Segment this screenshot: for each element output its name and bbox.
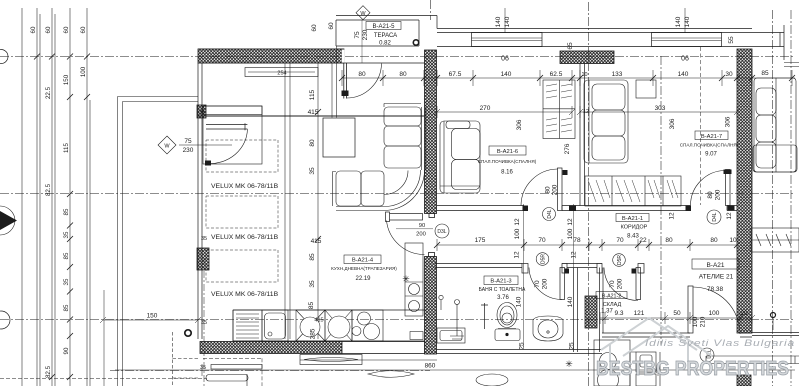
closet door leaf top-left [206,123,247,130]
svg-text:100: 100 [80,66,87,77]
roof window marker diamond left [158,136,176,154]
bedroom6 wardrobe [543,80,575,139]
door D3L leaf [387,214,423,221]
svg-text:115: 115 [309,89,316,100]
VELUX dashed box 1 [206,140,278,172]
dining table [323,118,355,157]
door hinge caps D3L [429,214,435,218]
svg-text:82.5: 82.5 [45,365,52,378]
room label B-A21-2 storage [596,292,627,299]
svg-text:78.38: 78.38 [707,286,724,293]
axis dash-dot vertical x661 [660,56,662,345]
entrance door D2L arc [693,287,740,334]
projection line x104 lower [103,290,105,386]
svg-text:200: 200 [542,278,549,289]
corridor dim ticks [434,242,740,248]
interior line x285 [284,63,286,339]
terrace/bedroom top edge line with door gap [198,62,425,64]
axis bubble top-left [0,50,8,64]
closet door arc top-left [207,129,248,164]
hatched pier on left wall [197,248,209,270]
svg-text:В-А21-4: В-А21-4 [352,258,374,264]
door size 80/200 bedroom7 [707,189,722,200]
door size 70/200 storage [534,278,549,289]
svg-text:78: 78 [573,237,581,244]
svg-text:90: 90 [63,347,70,354]
door size 100/210 entrance [692,316,707,327]
svg-text:VELUX MK 06-78/11B: VELUX MK 06-78/11B [211,234,279,241]
outside lower line [300,359,437,361]
svg-text:20: 20 [740,310,748,317]
svg-text:W: W [164,144,170,150]
door D3L size 90/200 [416,223,426,238]
door marker D5R storage [536,253,549,266]
svg-text:80: 80 [309,139,316,147]
svg-text:В-А21-2: В-А21-2 [602,294,621,300]
svg-text:В-А21: В-А21 [706,262,724,269]
svg-text:9.07: 9.07 [705,152,717,158]
door D3L arc [387,221,425,255]
left dim labels column [30,26,87,378]
storage right wall x600 [600,268,604,353]
svg-text:06: 06 [501,56,509,63]
bathroom-storage divider wall [574,268,578,353]
dashed roof line bedroom7 [700,47,702,205]
svg-text:140: 140 [495,16,502,27]
dim ticks small mid [315,109,321,242]
dashed line bottom-left [0,378,207,380]
axis dash-dot horizontal y193 [0,192,795,194]
svg-text:12: 12 [514,251,521,259]
top dim labels row1 [358,70,769,78]
svg-text:22.5: 22.5 [45,86,52,99]
svg-text:85: 85 [761,70,769,77]
svg-text:80: 80 [665,237,673,244]
axis dash-dot vertical x791 [790,10,792,386]
svg-text:В-А21-5: В-А21-5 [372,24,395,30]
svg-text:415: 415 [314,318,323,324]
door size 80/200 bedroom6 [545,184,559,195]
svg-text:82.5: 82.5 [45,183,52,196]
svg-text:121: 121 [634,310,645,317]
svg-text:35: 35 [199,110,205,116]
corridor top wall [437,206,737,211]
svg-text:62.5: 62.5 [550,71,563,78]
svg-text:СПАЛ.ПОЧИВКА(СПАЛНЯ): СПАЛ.ПОЧИВКА(СПАЛНЯ) [478,159,537,164]
svg-text:85: 85 [63,252,70,259]
svg-text:В-А21-3: В-А21-3 [490,279,511,285]
room label B-A21-7 [695,131,728,140]
svg-text:140: 140 [501,71,512,78]
left projection line x22 [22,8,90,386]
svg-text:115: 115 [63,143,70,153]
neighbour bed right lower [753,145,797,172]
window W1 frame [472,33,543,47]
terrace door arc [347,64,382,99]
svg-text:ТЕРАСА: ТЕРАСА [374,33,397,39]
svg-text:860: 860 [425,363,436,370]
left interior vertical dim chain [308,89,324,339]
top dim ticks row1 [339,75,795,81]
svg-text:200: 200 [552,184,559,195]
svg-text:12: 12 [726,212,733,220]
svg-text:200: 200 [715,189,722,200]
neighbour sofa right [754,78,796,172]
kitchen X-cabinet 2 [325,310,352,341]
svg-text:60: 60 [328,22,335,30]
svg-text:55: 55 [728,36,735,44]
kitchen X-cabinet 1 [296,310,325,341]
axis dash-dot horizontal lower partial [110,370,430,372]
corridor dim labels [475,237,737,244]
top-right small lines [784,63,799,67]
door stop circle right [771,313,776,318]
hatched wall right vertical [737,49,752,333]
VELUX dashed box 3 [206,250,278,282]
left projection line x87 [86,8,88,386]
svg-text:80: 80 [545,186,552,194]
svg-text:140: 140 [678,71,689,78]
svg-text:60: 60 [30,26,37,33]
svg-text:276: 276 [564,143,571,154]
svg-text:✳: ✳ [565,359,573,369]
wall thickness 35 labels [199,110,207,326]
svg-text:3.76: 3.76 [497,295,509,301]
svg-text:175: 175 [475,237,486,244]
hatched wall vertical kitchen upper [425,50,437,214]
svg-text:✳: ✳ [402,274,410,284]
svg-text:D3L: D3L [437,229,446,235]
bathroom rotated dims [516,296,576,349]
atelier dim line [600,312,755,324]
kitchen dish rack [233,310,262,341]
hatched wall top-left [197,49,752,386]
terrace edge line down [332,46,337,118]
section marker triangle left [0,206,17,235]
door size 70/200 atelier [609,278,624,289]
bedroom6 sofa vertical part [440,121,480,193]
hatched pier left wall upper [197,105,206,118]
svg-text:06: 06 [681,56,689,63]
axis bubble mid-left [0,311,10,329]
svg-text:В-А21-1: В-А21-1 [622,216,643,222]
bathroom toilet [495,303,520,341]
door D5R storage arc [529,268,562,300]
svg-text:90: 90 [419,223,425,229]
watermark house logo [601,318,712,362]
svg-text:65: 65 [567,42,574,50]
rotated 12/100 labels corridor [514,212,734,259]
svg-text:150: 150 [147,313,158,320]
bathroom small fixture [440,300,442,311]
dashed service rect bottom-left [173,332,201,386]
svg-text:22.19: 22.19 [355,276,371,282]
svg-text:1.37: 1.37 [601,309,613,315]
door D5R storage leaf [560,268,565,300]
door D5R atelier leaf [636,268,641,300]
svg-text:200: 200 [416,232,426,238]
bathroom towel rail [450,300,464,340]
VELUX dashed box 2 [206,196,278,228]
svg-text:415: 415 [311,238,322,245]
svg-text:140: 140 [675,16,682,27]
svg-text:BESTBG PROPERTIES: BESTBG PROPERTIES [596,358,789,380]
interior line x318 [317,63,319,339]
corridor dim line [437,239,737,251]
svg-text:80: 80 [707,191,714,199]
dim 150 left [100,317,201,323]
svg-text:70: 70 [538,237,546,244]
line under top wall [342,50,345,64]
window leader W1 [504,8,506,33]
left dimension line x70 [69,8,71,386]
svg-text:10: 10 [729,237,737,244]
svg-text:12: 12 [571,251,578,259]
bold ring door-stop top [413,40,418,45]
svg-text:303: 303 [655,105,666,112]
door D4L bedroom6 arc [521,169,558,206]
svg-text:22: 22 [639,237,647,244]
bottom wall right with entrance opening [602,333,799,338]
living room top boundary line [198,115,425,117]
handrail walkway right [706,356,799,364]
bottom wall bathroom strip [437,350,603,354]
living sofa vertical part [384,104,426,171]
svg-text:В-А21-7: В-А21-7 [701,134,722,140]
svg-text:210: 210 [700,316,707,327]
door marker D5R atelier [613,254,626,267]
neighbour kitchen bottom-right column [594,340,630,386]
top-right wall extension lines [752,25,784,60]
line above top wall [198,48,344,50]
left projection line x37 [36,8,38,386]
svg-text:КОРИДОР: КОРИДОР [621,225,648,231]
eave outline lines [118,97,199,386]
left dimension ticks [34,54,90,381]
svg-text:70: 70 [534,280,541,288]
room label B-A21-4 kitchen [344,255,381,264]
window sill lens lower 2 [368,371,414,378]
neighbour bath oval [476,374,508,386]
svg-text:VELUX MK 06-78/11B: VELUX MK 06-78/11B [211,291,279,298]
svg-text:150: 150 [63,74,70,85]
door D4L bedroom7 leaf [726,170,731,206]
top window band outer lines [437,29,752,47]
svg-text:12: 12 [583,109,589,115]
svg-text:100: 100 [692,316,699,327]
room width dim 303 [577,106,740,118]
terrace outline top [198,16,437,64]
svg-text:D5R: D5R [541,254,547,264]
svg-text:БАНЯ С ТОАЛЕТНА: БАНЯ С ТОАЛЕТНА [479,287,526,293]
bedroom divider wall x578 [580,64,585,206]
bathroom vanity [437,328,465,343]
kitchen counter edge [233,310,425,341]
svg-text:10: 10 [581,72,587,78]
svg-text:СКЛАД: СКЛАД [603,302,622,308]
svg-text:50: 50 [673,310,681,317]
svg-text:230: 230 [183,147,194,154]
svg-text:85: 85 [63,208,70,215]
living sofa horizontal part [333,170,425,211]
svg-text:35: 35 [63,278,70,285]
svg-text:100: 100 [514,228,521,239]
svg-text:140: 140 [504,16,511,27]
neighbour oven unit [630,352,660,386]
terrace door leaf [344,63,347,99]
svg-text:285: 285 [310,328,317,339]
top dim line row1 [342,70,795,86]
left wall axis dash-dot [203,258,205,386]
axis dash-dot horizontal middle [0,319,795,321]
svg-text:230: 230 [362,29,369,40]
svg-text:85: 85 [63,304,70,311]
svg-text:306: 306 [725,116,732,127]
door marker D2L entrance [700,348,714,362]
svg-text:67.5: 67.5 [449,71,462,78]
window leader W2 [684,8,686,33]
svg-text:306: 306 [516,119,523,130]
svg-text:80: 80 [710,237,718,244]
atelier dim labels [614,310,748,317]
svg-text:75: 75 [184,138,192,145]
room label B-A21-1 corridor [616,214,649,222]
bathroom radiator bar [481,303,488,329]
hatched pier storage [585,296,597,328]
door marker D4L bedroom7 [707,210,721,224]
closet top-left outline [203,106,262,164]
room label B-A21-6 [489,146,526,155]
door marker D4L bedroom6 [543,208,556,221]
door marker D3L [435,224,449,238]
svg-text:12: 12 [567,218,574,226]
svg-text:80: 80 [358,71,366,78]
svg-text:85: 85 [309,253,316,261]
window sill lens bottom [300,355,362,365]
terrace 75/210 fraction [354,29,369,40]
svg-text:В-А21-6: В-А21-6 [497,149,518,155]
svg-text:60: 60 [311,24,318,32]
svg-text:D4L: D4L [712,212,718,221]
svg-text:9.3: 9.3 [614,310,623,317]
svg-text:25: 25 [569,342,576,350]
svg-text:35: 35 [309,280,316,288]
corridor projection lines [524,204,574,347]
bold ring door stop left [185,330,191,336]
svg-text:140: 140 [516,296,523,307]
svg-text:60: 60 [80,26,87,33]
kitchen appliance column [405,243,423,316]
svg-text:35: 35 [63,231,70,238]
svg-text:306: 306 [669,118,676,129]
axis dash-dot vertical x772 [772,10,774,386]
wall strip below kitchen window [342,342,425,354]
svg-text:133: 133 [612,71,623,78]
interior line x290 [289,63,291,339]
left projection line x52 [51,8,53,386]
svg-text:VELUX MK 06-78/11B: VELUX MK 06-78/11B [211,183,279,190]
svg-text:60: 60 [45,26,52,33]
svg-text:60: 60 [63,26,70,33]
room width dim 270 [434,106,575,118]
room label B-A21 atelier [692,259,739,269]
svg-text:270: 270 [480,105,491,112]
bathroom bidet [533,316,563,341]
svg-text:W: W [360,11,366,17]
svg-text:254: 254 [277,71,286,77]
bedroom7 wardrobe [585,176,681,206]
svg-text:8.43: 8.43 [627,234,639,240]
svg-text:12: 12 [669,212,676,220]
svg-text:70: 70 [616,237,624,244]
left exterior wall lines [198,63,202,339]
svg-text:D5R: D5R [617,255,623,265]
door D4L bedroom6 leaf [558,168,563,211]
neighbour closet rod right [751,228,799,252]
svg-text:25: 25 [519,342,526,350]
corridor bottom wall [435,264,644,274]
svg-text:35: 35 [200,365,206,371]
neighbour sliding door bottom-left [246,374,248,386]
svg-text:35: 35 [201,320,207,326]
svg-text:75: 75 [354,31,361,39]
hatched wall vertical kitchen lower [425,257,437,355]
kitchen sink single [262,310,288,341]
roof window fraction 75/230 [183,138,194,154]
svg-text:80: 80 [399,71,407,78]
window W2 frame [652,33,722,47]
kitchen right cabinet small squares [410,332,423,340]
svg-text:85: 85 [308,302,315,310]
door D5R atelier arc [604,268,638,301]
sill rect bottom-left [211,365,262,370]
hatched wall bottom band [200,342,342,354]
bedroom7 nightstand [636,80,656,98]
room label B-A21-3 bath [484,276,518,285]
svg-text:0.82: 0.82 [379,41,391,47]
svg-text:140: 140 [684,16,691,27]
svg-text:12: 12 [514,218,521,226]
svg-text:30: 30 [725,71,733,78]
svg-text:АТЕЛИЕ 21: АТЕЛИЕ 21 [699,274,734,281]
svg-text:D4L: D4L [547,209,553,218]
svg-text:100: 100 [709,310,720,317]
axis dash-dot vertical stub x430 [430,0,432,20]
svg-text:35: 35 [309,167,316,175]
bedroom7 bed [584,80,628,163]
door D4L bedroom7 arc [691,171,726,206]
svg-text:100: 100 [567,228,574,239]
svg-text:КУХН.ДНЕВНА(ТРАПЕЗАРИЯ): КУХН.ДНЕВНА(ТРАПЕЗАРИЯ) [331,266,397,271]
axis dash-dot vertical x578 [588,2,590,386]
svg-text:70: 70 [609,280,616,288]
bottom long dim line [115,364,795,376]
svg-text:СПАЛ.ПОЧИВКА(СПАЛНЯ): СПАЛ.ПОЧИВКА(СПАЛНЯ) [680,143,739,148]
kitchen cooktop circles [352,310,383,341]
svg-text:200: 200 [617,278,624,289]
hatched wall right below entrance [737,375,751,386]
svg-text:8.16: 8.16 [501,170,513,176]
svg-text:140: 140 [567,296,574,307]
room label terrace B-A21-5 [366,22,401,30]
svg-text:35: 35 [201,236,207,242]
svg-text:Idilis Sveti Vlas Bulgaria: Idilis Sveti Vlas Bulgaria [645,338,795,348]
terrace window marker diamond [356,6,370,20]
hatched wall pier top-mid [560,51,614,64]
window sill 254 [245,68,318,77]
entrance door D2L leaf [688,286,693,333]
